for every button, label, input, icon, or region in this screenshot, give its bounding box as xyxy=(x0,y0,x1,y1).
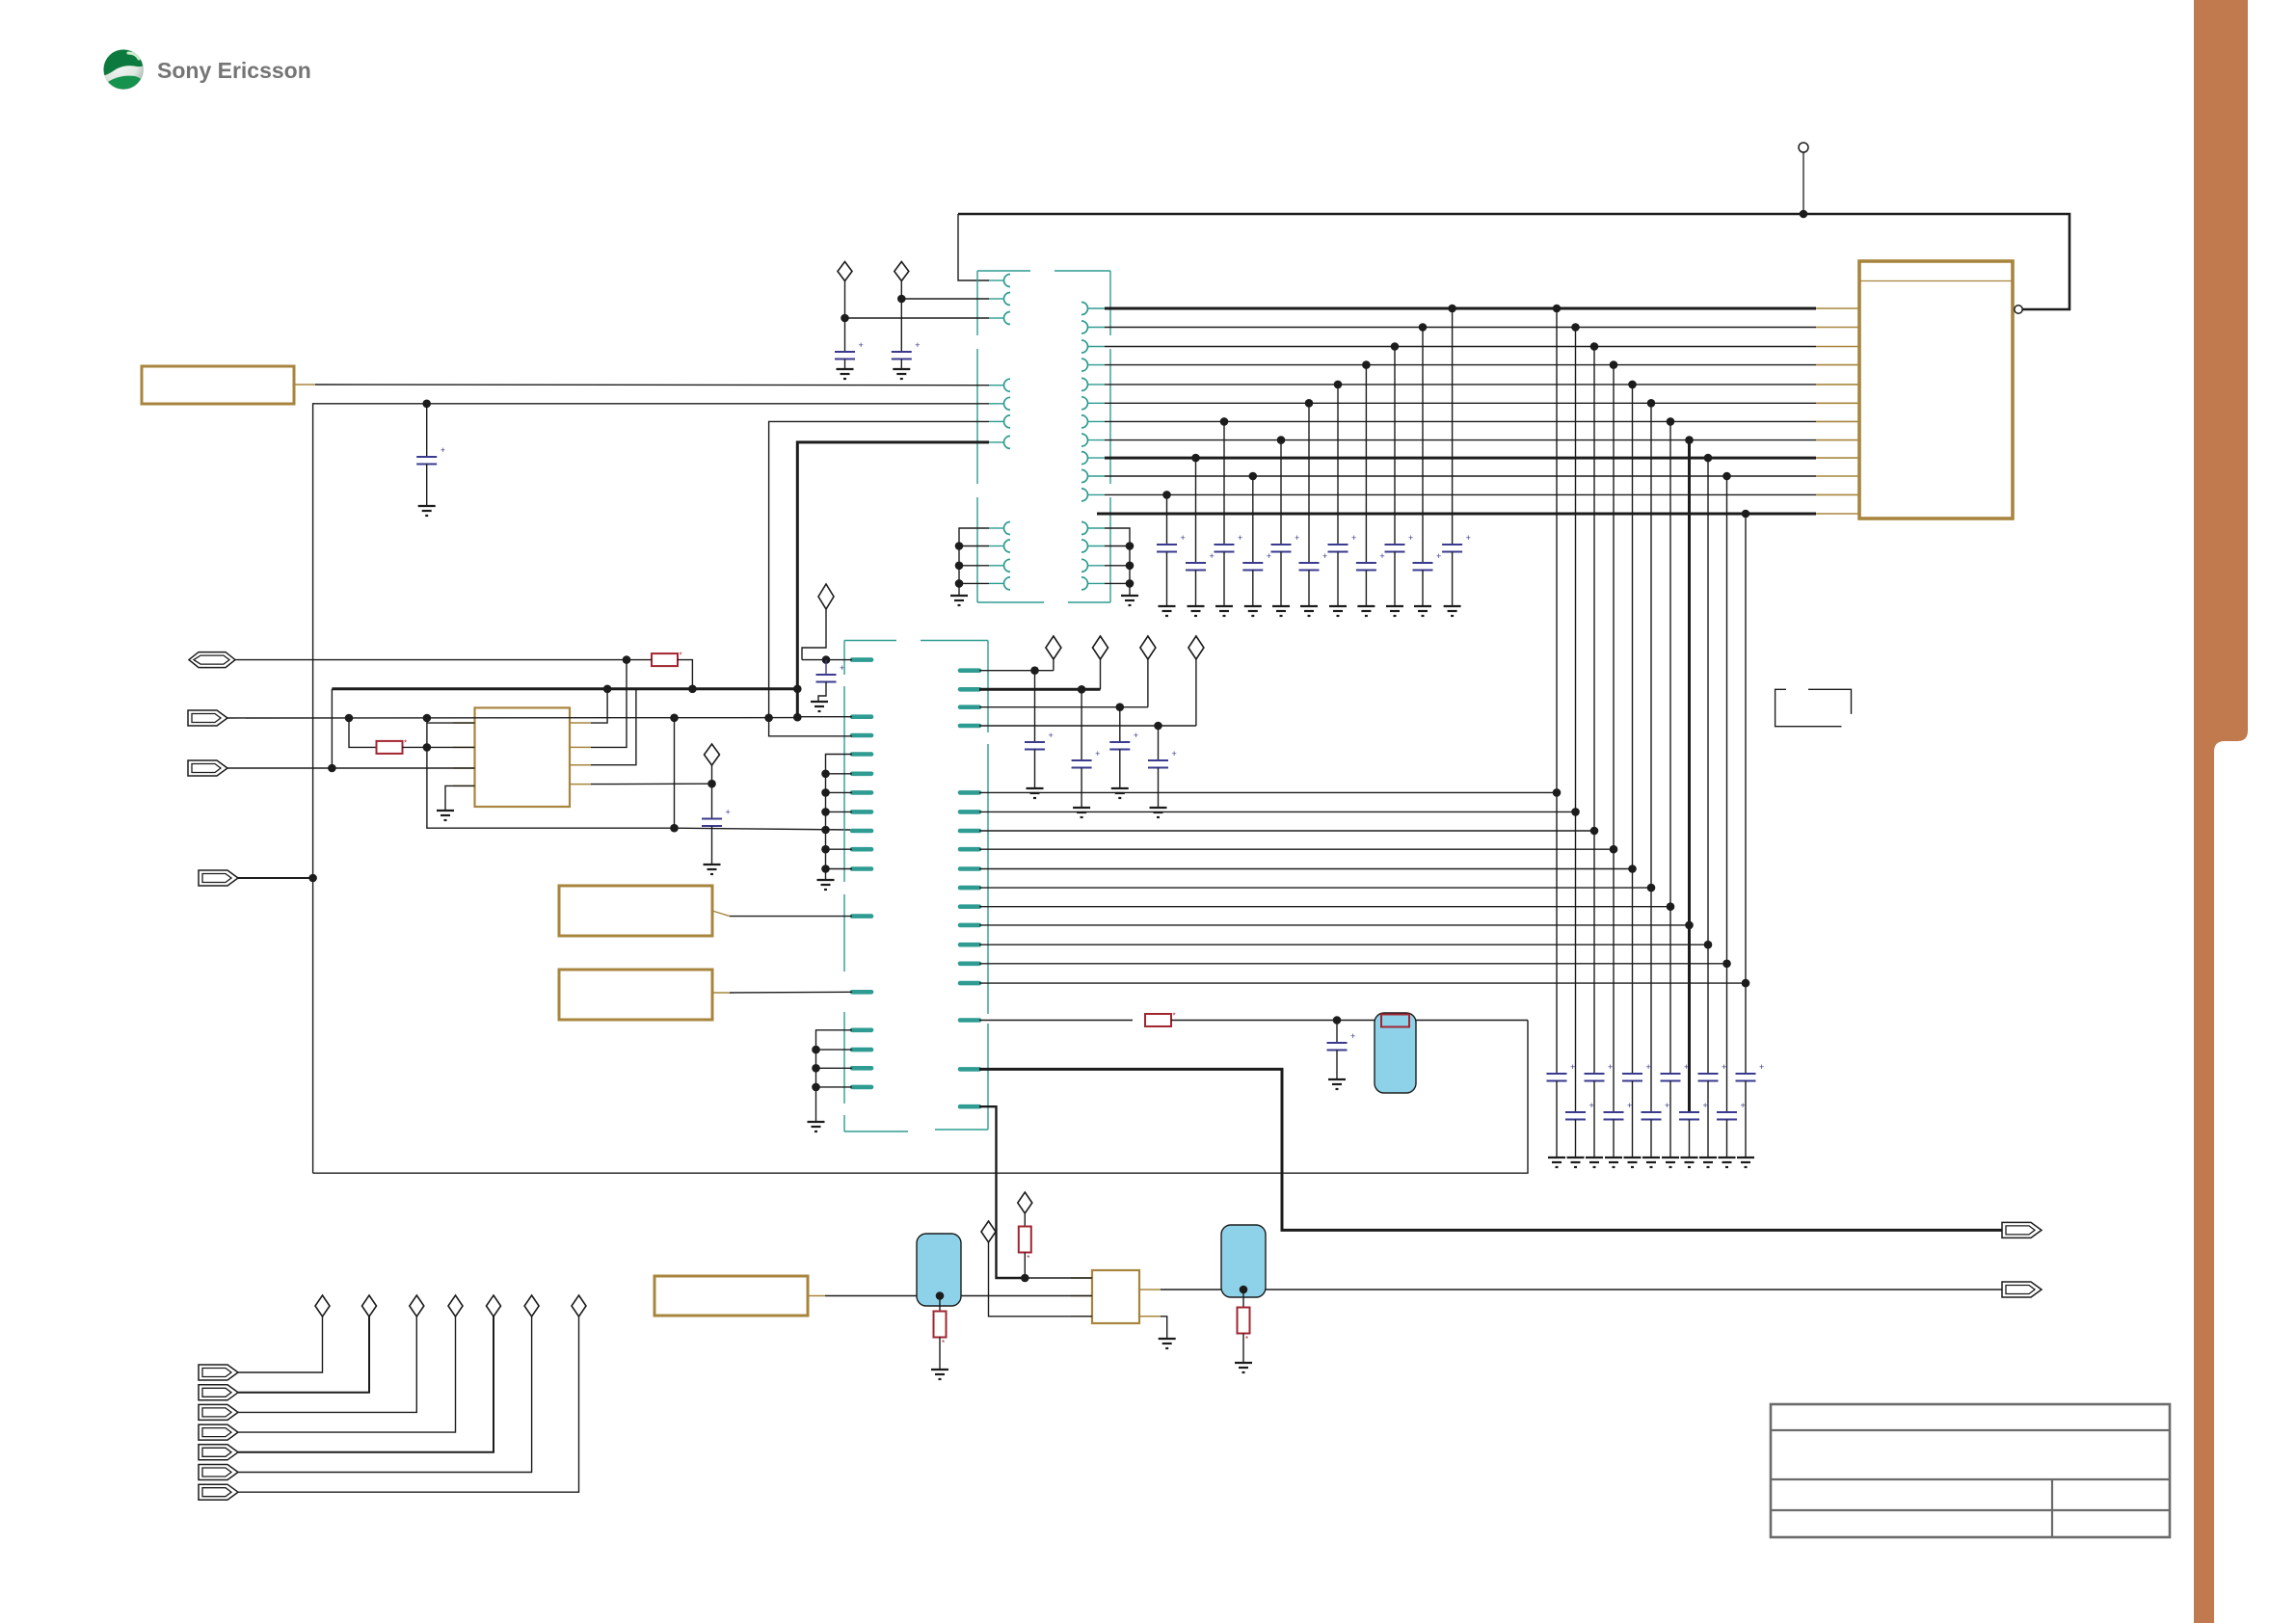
wire bus line 10 xyxy=(1105,475,1816,477)
wire pin 733.7 xyxy=(979,706,1148,708)
wire pin1109 xyxy=(979,1069,2002,1230)
ground bank1 1 xyxy=(1159,605,1176,607)
wire pin 684 xyxy=(802,659,852,661)
wire R2 branch xyxy=(349,718,377,747)
wire bus drop 7 xyxy=(1669,421,1671,1074)
ground 846 xyxy=(808,1121,825,1123)
svg-text:+: + xyxy=(1172,749,1177,758)
svg-text:+: + xyxy=(1322,551,1327,561)
ground bank2 2 xyxy=(1567,1157,1585,1158)
net flag 4 xyxy=(199,870,238,886)
svg-text:+: + xyxy=(1351,533,1356,543)
wire flag bl1 xyxy=(238,1317,323,1372)
wire pin1148 xyxy=(979,1106,1025,1278)
net flag bl7 xyxy=(199,1484,238,1500)
junction rail 630 xyxy=(603,685,612,694)
junction xyxy=(1030,666,1039,675)
junction xyxy=(821,865,830,873)
ground bank2 3 xyxy=(1586,1157,1603,1158)
junction xyxy=(841,314,849,323)
annotation bracket box xyxy=(1775,689,1842,726)
wire 699 up xyxy=(674,718,676,828)
wire group pin xyxy=(826,811,853,812)
junction 699 on 859 xyxy=(670,824,679,833)
resistor R1 xyxy=(652,653,678,666)
net flag bl2 xyxy=(199,1385,238,1400)
diamond xyxy=(1093,636,1108,659)
junction xyxy=(955,562,964,571)
ground bank1 4 xyxy=(1244,605,1262,607)
connector X1 left bracket xyxy=(976,271,978,335)
connector X1 left pin 458.9 xyxy=(989,441,1004,443)
connector X2 left pin 1029.3 xyxy=(852,990,871,995)
wire bus line 4 xyxy=(1105,364,1816,366)
connector X2 right pin 940.7 xyxy=(960,904,979,909)
diamond bl7 xyxy=(572,1295,586,1317)
connector X2 left pin 901.5 xyxy=(852,866,871,871)
resistor R6 xyxy=(1242,1290,1244,1308)
ground xyxy=(1111,787,1129,789)
capacitor bank1 C6 xyxy=(1299,562,1320,564)
connector X2 left pin 1108.3 xyxy=(852,1066,871,1071)
junction flag2 R2 xyxy=(345,714,354,723)
wire bus drop 3 xyxy=(1593,347,1595,1075)
connector X2 right pin 715.3 xyxy=(960,687,979,692)
wire X2 pin 862 xyxy=(979,830,1594,832)
wire cap drop 7 xyxy=(1337,385,1339,545)
ground bank1 11 xyxy=(1444,605,1461,607)
wire low pin xyxy=(1105,565,1130,567)
svg-text:+: + xyxy=(441,445,445,455)
capacitor bank2 C10 xyxy=(1717,1111,1737,1113)
junction flag1 650 xyxy=(623,655,631,664)
diamond N2101 out xyxy=(705,744,720,765)
wire flag1 to R1 xyxy=(235,659,652,661)
ground bank2 9 xyxy=(1699,1157,1717,1158)
junction rail 827 xyxy=(793,685,802,694)
net flag bl5 xyxy=(199,1445,238,1460)
junction rail flag3 xyxy=(328,764,336,773)
capacitor bank1 C2 xyxy=(1186,562,1206,564)
wire group pin xyxy=(826,848,853,850)
svg-text:+: + xyxy=(1238,533,1242,543)
wire cap drop 1 xyxy=(1166,494,1168,545)
wire bus line 6 xyxy=(1105,402,1816,404)
wire IC right750 up xyxy=(591,689,607,723)
junction pin drop 10 xyxy=(1722,960,1731,969)
wire loop top xyxy=(313,404,989,1173)
wire IC right794 up xyxy=(591,689,636,765)
svg-text:*: * xyxy=(942,1339,945,1347)
connector X2 left pin 842.4 xyxy=(852,810,871,814)
IC pin stub 8 xyxy=(1816,439,1859,441)
capacitor bank1 C8 xyxy=(1356,562,1376,564)
junction xyxy=(1078,685,1086,694)
blue box Z2 xyxy=(917,1234,961,1306)
junction 699 flag2 xyxy=(670,714,679,723)
wire bus line 5 xyxy=(1105,384,1816,386)
svg-text:+: + xyxy=(1646,1062,1651,1072)
ground bank1 5 xyxy=(1272,605,1290,607)
wire IC right775 up xyxy=(591,660,627,748)
wire group vert 856 xyxy=(826,755,853,880)
connector X2 left pin 862 xyxy=(852,829,871,834)
wire group2 pin xyxy=(816,1086,853,1088)
wire cap drop 2 xyxy=(1195,458,1197,563)
connector X1 right pin 586.8 xyxy=(1081,559,1088,572)
connector X1 right pin 513.4 xyxy=(1081,489,1088,501)
junction cap 418 xyxy=(422,400,431,409)
junction flag4 on loop xyxy=(308,874,317,883)
connector X2 left pin 822.4 xyxy=(852,790,871,795)
connector X2 left pin 881.2 xyxy=(852,847,871,852)
wire flag bl6 xyxy=(238,1317,532,1473)
svg-text:+: + xyxy=(1095,749,1100,758)
svg-text:*: * xyxy=(680,652,682,660)
svg-text:*: * xyxy=(404,738,407,747)
ground bank1 3 xyxy=(1215,605,1233,607)
svg-text:+: + xyxy=(1210,551,1215,561)
junction R2IC xyxy=(423,743,432,752)
wire X2 pin 822.4 xyxy=(979,791,1557,793)
IC pin stub 6 xyxy=(1816,402,1859,404)
diamond R4 xyxy=(1018,1192,1032,1213)
ground C738 xyxy=(704,864,721,865)
net flag 2 xyxy=(188,710,227,726)
junction bus drop 11 xyxy=(1742,510,1750,519)
wire group2 vert 846 xyxy=(816,1030,853,1121)
capacitor bank2 C11 xyxy=(1736,1073,1756,1075)
IC pin stub 11 xyxy=(1816,493,1859,495)
wire cap drop 10 xyxy=(1422,328,1424,564)
connector X1 right pin 398.9 xyxy=(1081,378,1088,390)
IC N2102 box xyxy=(1092,1270,1139,1323)
capacitor bank2 C6 xyxy=(1642,1111,1662,1113)
junction xyxy=(1126,562,1135,571)
junction pin drop 8 xyxy=(1685,921,1694,930)
ground bank2 4 xyxy=(1605,1157,1622,1158)
svg-text:+: + xyxy=(1466,533,1471,543)
wire pin 695.7 xyxy=(979,670,1054,672)
ground bank1 7 xyxy=(1329,605,1347,607)
capacitor C top-left xyxy=(426,404,428,457)
connector X1 left pin 566.5 xyxy=(989,545,1004,547)
ground bank1 8 xyxy=(1357,605,1375,607)
wire flag3 xyxy=(227,767,332,769)
wire cap drop 11 xyxy=(1452,308,1454,545)
capacitor xyxy=(1119,707,1121,742)
wire cap drop 4 xyxy=(1252,476,1254,563)
wire cap drop 5 xyxy=(1280,440,1282,545)
diamond xyxy=(1046,636,1061,659)
capacitor C738 xyxy=(711,784,713,818)
junction cap drop 9 xyxy=(1391,342,1400,351)
ground R6 xyxy=(1235,1362,1252,1364)
wire group pin xyxy=(826,791,853,793)
svg-text:+: + xyxy=(1379,551,1384,561)
ground xyxy=(1027,787,1044,789)
connector X2 left pin 950.6 xyxy=(852,914,871,918)
junction 738 xyxy=(707,780,716,788)
net flag right 1 xyxy=(2002,1222,2042,1237)
wire bus line 2 xyxy=(1105,327,1816,329)
connector X2 right pin 901.5 xyxy=(960,866,979,871)
svg-text:+: + xyxy=(1134,731,1138,740)
svg-text:+: + xyxy=(859,340,864,350)
ground xyxy=(893,368,910,370)
wire bus drop 9 xyxy=(1707,458,1709,1074)
net flag 3 xyxy=(188,760,227,776)
wire X1 left low group xyxy=(959,528,989,595)
capacitor bank1 C3 xyxy=(1215,544,1235,545)
junction bus drop 6 xyxy=(1647,399,1656,408)
resistor R5 xyxy=(939,1296,941,1312)
diamond bl2 xyxy=(362,1295,377,1317)
title block divider xyxy=(2051,1479,2053,1537)
gold label box mid2 xyxy=(559,970,712,1020)
junction xyxy=(1126,542,1135,550)
junction bus drop 8 xyxy=(1685,436,1694,444)
junction bus drop 2 xyxy=(1571,323,1580,332)
junction cap drop 2 xyxy=(1191,454,1200,463)
connector X2 right pin 822.4 xyxy=(960,790,979,795)
wire R2 to IC xyxy=(402,746,475,748)
ground bank2 11 xyxy=(1737,1157,1754,1158)
capacitor bank2 C7 xyxy=(1661,1073,1681,1075)
IC pin stub 1 xyxy=(1816,307,1859,309)
ground R5 xyxy=(931,1369,948,1370)
connector X2 right pin 921.1 xyxy=(960,886,979,891)
junction cap drop 10 xyxy=(1419,323,1428,332)
wire bus drop 1 xyxy=(1556,308,1558,1074)
wire flag3 to IC xyxy=(332,767,474,769)
power diamond xyxy=(838,262,852,281)
wire group2 pin xyxy=(816,1049,853,1051)
wire bus drop 4 xyxy=(1613,365,1615,1112)
ground X1 right xyxy=(1121,595,1138,597)
junction 827 flag2 xyxy=(793,713,802,722)
connector X1 left pin 310 xyxy=(989,298,1004,300)
junction pin drop 9 xyxy=(1704,941,1713,949)
junction cap1058 xyxy=(1333,1016,1342,1024)
ground 856 xyxy=(817,879,835,881)
svg-text:+: + xyxy=(1350,1031,1355,1041)
ground bank2 8 xyxy=(1681,1157,1698,1158)
resistor R4 xyxy=(1019,1227,1031,1253)
blue box Z3 xyxy=(1221,1225,1266,1297)
wire 443 down xyxy=(427,723,675,828)
svg-text:+: + xyxy=(1570,1062,1575,1072)
connector X1 right pin 437.4 xyxy=(1081,415,1088,428)
junction xyxy=(812,1083,820,1092)
svg-text:+: + xyxy=(1703,1101,1708,1110)
svg-text:+: + xyxy=(1295,533,1299,543)
connector X2 right pin 959.9 xyxy=(960,923,979,928)
orange sidebar band xyxy=(2194,0,2248,1623)
ground bank1 10 xyxy=(1414,605,1431,607)
connector X1 right pin 456.6 xyxy=(1081,434,1088,446)
capacitor bank2 C4 xyxy=(1604,1111,1624,1113)
junction bus drop 10 xyxy=(1722,472,1731,481)
svg-text:+: + xyxy=(726,808,731,817)
junction pin drop 7 xyxy=(1667,902,1675,911)
junction pin drop 4 xyxy=(1610,845,1618,854)
resistor R2 xyxy=(377,741,403,754)
net flag right 2 xyxy=(2002,1282,2042,1297)
connector X2 right pin 695.7 xyxy=(960,668,979,673)
junction cap drop 11 xyxy=(1448,305,1456,313)
connector X2 right pin 999.8 xyxy=(960,961,979,966)
connector X1 right pin 359.5 xyxy=(1081,340,1088,353)
svg-text:+: + xyxy=(840,663,844,673)
connector X2 left pin 684.6 xyxy=(852,657,871,662)
connector X1 right pin 475.1 xyxy=(1081,452,1088,465)
connector X1 right pin 566.5 xyxy=(1081,540,1088,552)
wire low pin xyxy=(959,545,989,547)
wire flag4 xyxy=(238,877,313,879)
wire y861 to pin862 xyxy=(675,828,853,830)
capacitor bank2 C5 xyxy=(1622,1073,1642,1075)
connector X1 left pin 605.4 xyxy=(989,582,1004,584)
junction Z2 xyxy=(936,1291,945,1300)
wire VBATT to pin xyxy=(294,384,315,386)
junction bus drop 5 xyxy=(1628,381,1637,389)
wire box1 to pin950 xyxy=(730,916,852,918)
connector X1 left pin 330 xyxy=(989,317,1004,319)
wire X2 pin 980.2 xyxy=(979,944,1708,945)
junction IC2 pin1 xyxy=(1021,1274,1029,1283)
IC pin stub 4 xyxy=(1816,364,1859,366)
diamond bl1 xyxy=(315,1295,330,1317)
wire X2 pin 959.9 xyxy=(979,924,1690,926)
wire bus drop 11 xyxy=(1745,514,1747,1074)
svg-text:Sony Ericsson: Sony Ericsson xyxy=(157,58,311,83)
connector X2 left pin 802.8 xyxy=(852,771,871,776)
wire bus drop 10 xyxy=(1726,476,1728,1112)
connector X1 left pin 399.7 xyxy=(989,385,1004,386)
wire bus line 11 xyxy=(1105,493,1816,495)
ground bank2 1 xyxy=(1548,1157,1565,1158)
wire flag bl2 xyxy=(238,1317,369,1393)
ground IC N2101 xyxy=(437,810,454,811)
capacitor bank2 C8 xyxy=(1679,1111,1699,1113)
capacitor bank2 C2 xyxy=(1565,1111,1586,1113)
junction xyxy=(821,808,830,816)
wire cap drop 9 xyxy=(1394,347,1396,545)
connector X1 right pin 378.6 xyxy=(1081,359,1088,371)
capacitor bank1 C10 xyxy=(1413,562,1433,564)
junction pin drop 6 xyxy=(1647,884,1656,892)
ground bank1 2 xyxy=(1188,605,1205,607)
svg-text:+: + xyxy=(1408,533,1413,543)
wire X2 pin 940.7 xyxy=(979,906,1670,908)
junction pin drop 11 xyxy=(1742,979,1750,988)
capacitor bank1 C1 xyxy=(1157,544,1177,545)
connector X1 right pin 320 xyxy=(1081,303,1088,315)
wire cap drop 3 xyxy=(1223,421,1225,545)
svg-text:+: + xyxy=(915,340,920,350)
wire bus drop 8 xyxy=(1688,440,1691,1112)
connector X2 right pin 1109.4 xyxy=(960,1067,979,1072)
wire bus line 8 xyxy=(1105,439,1816,441)
capacitor bank1 C5 xyxy=(1271,544,1292,545)
junction pin drop 1 xyxy=(1553,788,1562,797)
IC pin stub 10 xyxy=(1816,475,1859,477)
wire R1 drop xyxy=(678,660,692,689)
wire low pin xyxy=(1105,582,1130,584)
junction bus drop 7 xyxy=(1667,417,1675,426)
wire to pin xyxy=(845,317,990,319)
connector X1 left pin 291 xyxy=(989,279,1004,281)
net flag hex xyxy=(189,652,235,668)
connector X2 right pin 1148.2 xyxy=(960,1104,979,1109)
svg-text:+: + xyxy=(1436,551,1441,561)
net flag bl4 xyxy=(199,1424,238,1440)
wire IC gnd pin xyxy=(445,785,475,810)
capacitor xyxy=(900,299,902,352)
ground top-left xyxy=(418,505,436,507)
title block row1 xyxy=(1771,1429,2170,1431)
junction pin drop 3 xyxy=(1590,827,1599,836)
ferrite bead blue box Z1 xyxy=(1375,1013,1416,1093)
wire X2 pin 881.2 xyxy=(979,848,1614,850)
net flag bl1 xyxy=(199,1365,238,1380)
diamond bl5 xyxy=(487,1295,501,1317)
junction 856 862 xyxy=(821,826,830,835)
ground bank1 9 xyxy=(1386,605,1403,607)
svg-text:+: + xyxy=(1722,1062,1726,1072)
junction cap drop 7 xyxy=(1334,381,1343,389)
diamond X2 top xyxy=(818,584,834,609)
ground xyxy=(1150,807,1167,809)
capacitor C1058 xyxy=(1336,1021,1338,1044)
wire flag2 long xyxy=(227,717,797,719)
junction xyxy=(1116,703,1125,711)
capacitor bank1 C4 xyxy=(1242,562,1263,564)
wire IC2 right pin xyxy=(1161,1289,1221,1290)
connector X2 right pin 980.2 xyxy=(960,943,979,947)
connector X2 right pin 1020.1 xyxy=(960,981,979,986)
ground C684 xyxy=(811,701,828,703)
IC pin stub 3 xyxy=(1816,346,1859,348)
junction xyxy=(897,295,906,304)
ground xyxy=(1073,807,1090,809)
junction cap684 xyxy=(822,655,831,664)
capacitor xyxy=(1081,689,1082,760)
junction flag2 ext xyxy=(423,714,432,723)
connector X1 right pin 418.3 xyxy=(1081,397,1087,410)
wire pin 763 xyxy=(769,718,852,736)
junction bus drop 9 xyxy=(1704,454,1713,463)
connector X2 left pin 1068.8 xyxy=(852,1028,871,1033)
title block frame xyxy=(1771,1404,2170,1537)
diamond bl3 xyxy=(410,1295,424,1317)
gold label box mid1 xyxy=(559,886,712,936)
wire cap drop 6 xyxy=(1308,403,1310,563)
wire box2 to pin1029 xyxy=(730,991,852,994)
ground xyxy=(837,368,854,370)
wire bus line 1 xyxy=(1105,307,1816,310)
wire flag2 to pin750 xyxy=(427,718,475,723)
connector X2 left pin 1127.9 xyxy=(852,1085,871,1090)
svg-text:+: + xyxy=(1181,533,1186,543)
wire box3 to IC2 pin2 xyxy=(825,1295,1092,1297)
svg-text:+: + xyxy=(1665,1101,1669,1110)
wire pin437 drop xyxy=(769,421,989,717)
node top test point xyxy=(1799,143,1808,152)
junction xyxy=(821,845,830,854)
wire flag bl4 xyxy=(238,1317,456,1432)
